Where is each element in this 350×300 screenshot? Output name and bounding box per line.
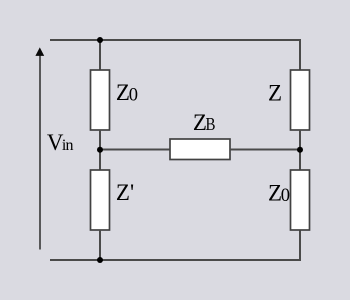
svg-text:Z: Z [268, 81, 282, 106]
wire bridge left segment [100, 149, 170, 151]
node bottom-left junction [97, 257, 103, 263]
node top-left junction [97, 37, 103, 43]
svg-text:0: 0 [129, 86, 138, 106]
resistor Z0 upper-left [91, 70, 110, 130]
wire left branch lower [99, 230, 101, 260]
wire left branch upper [99, 40, 101, 70]
node middle-right junction [297, 147, 303, 153]
node middle-left junction [97, 147, 103, 153]
svg-text:0: 0 [281, 186, 290, 206]
resistor ZB bridge [170, 139, 230, 160]
wire left branch middle [99, 130, 101, 170]
wire bottom rail [50, 230, 300, 260]
wire top rail [50, 40, 300, 70]
svg-text:Z': Z' [116, 180, 134, 205]
wire right branch middle [299, 130, 301, 170]
label Z0 (upper-left) [116, 80, 138, 106]
Vin source arrow [35, 47, 44, 249]
label Vin [47, 130, 74, 155]
label Z0 (lower-right) [268, 181, 290, 207]
resistor Z upper-right [291, 70, 310, 130]
resistor Z0 lower-right [291, 170, 310, 230]
svg-text:B: B [206, 114, 216, 134]
label ZB (bridge) [193, 110, 216, 135]
svg-text:in: in [62, 137, 74, 154]
wire bridge right segment [230, 149, 300, 151]
resistor Z' lower-left [91, 170, 110, 230]
